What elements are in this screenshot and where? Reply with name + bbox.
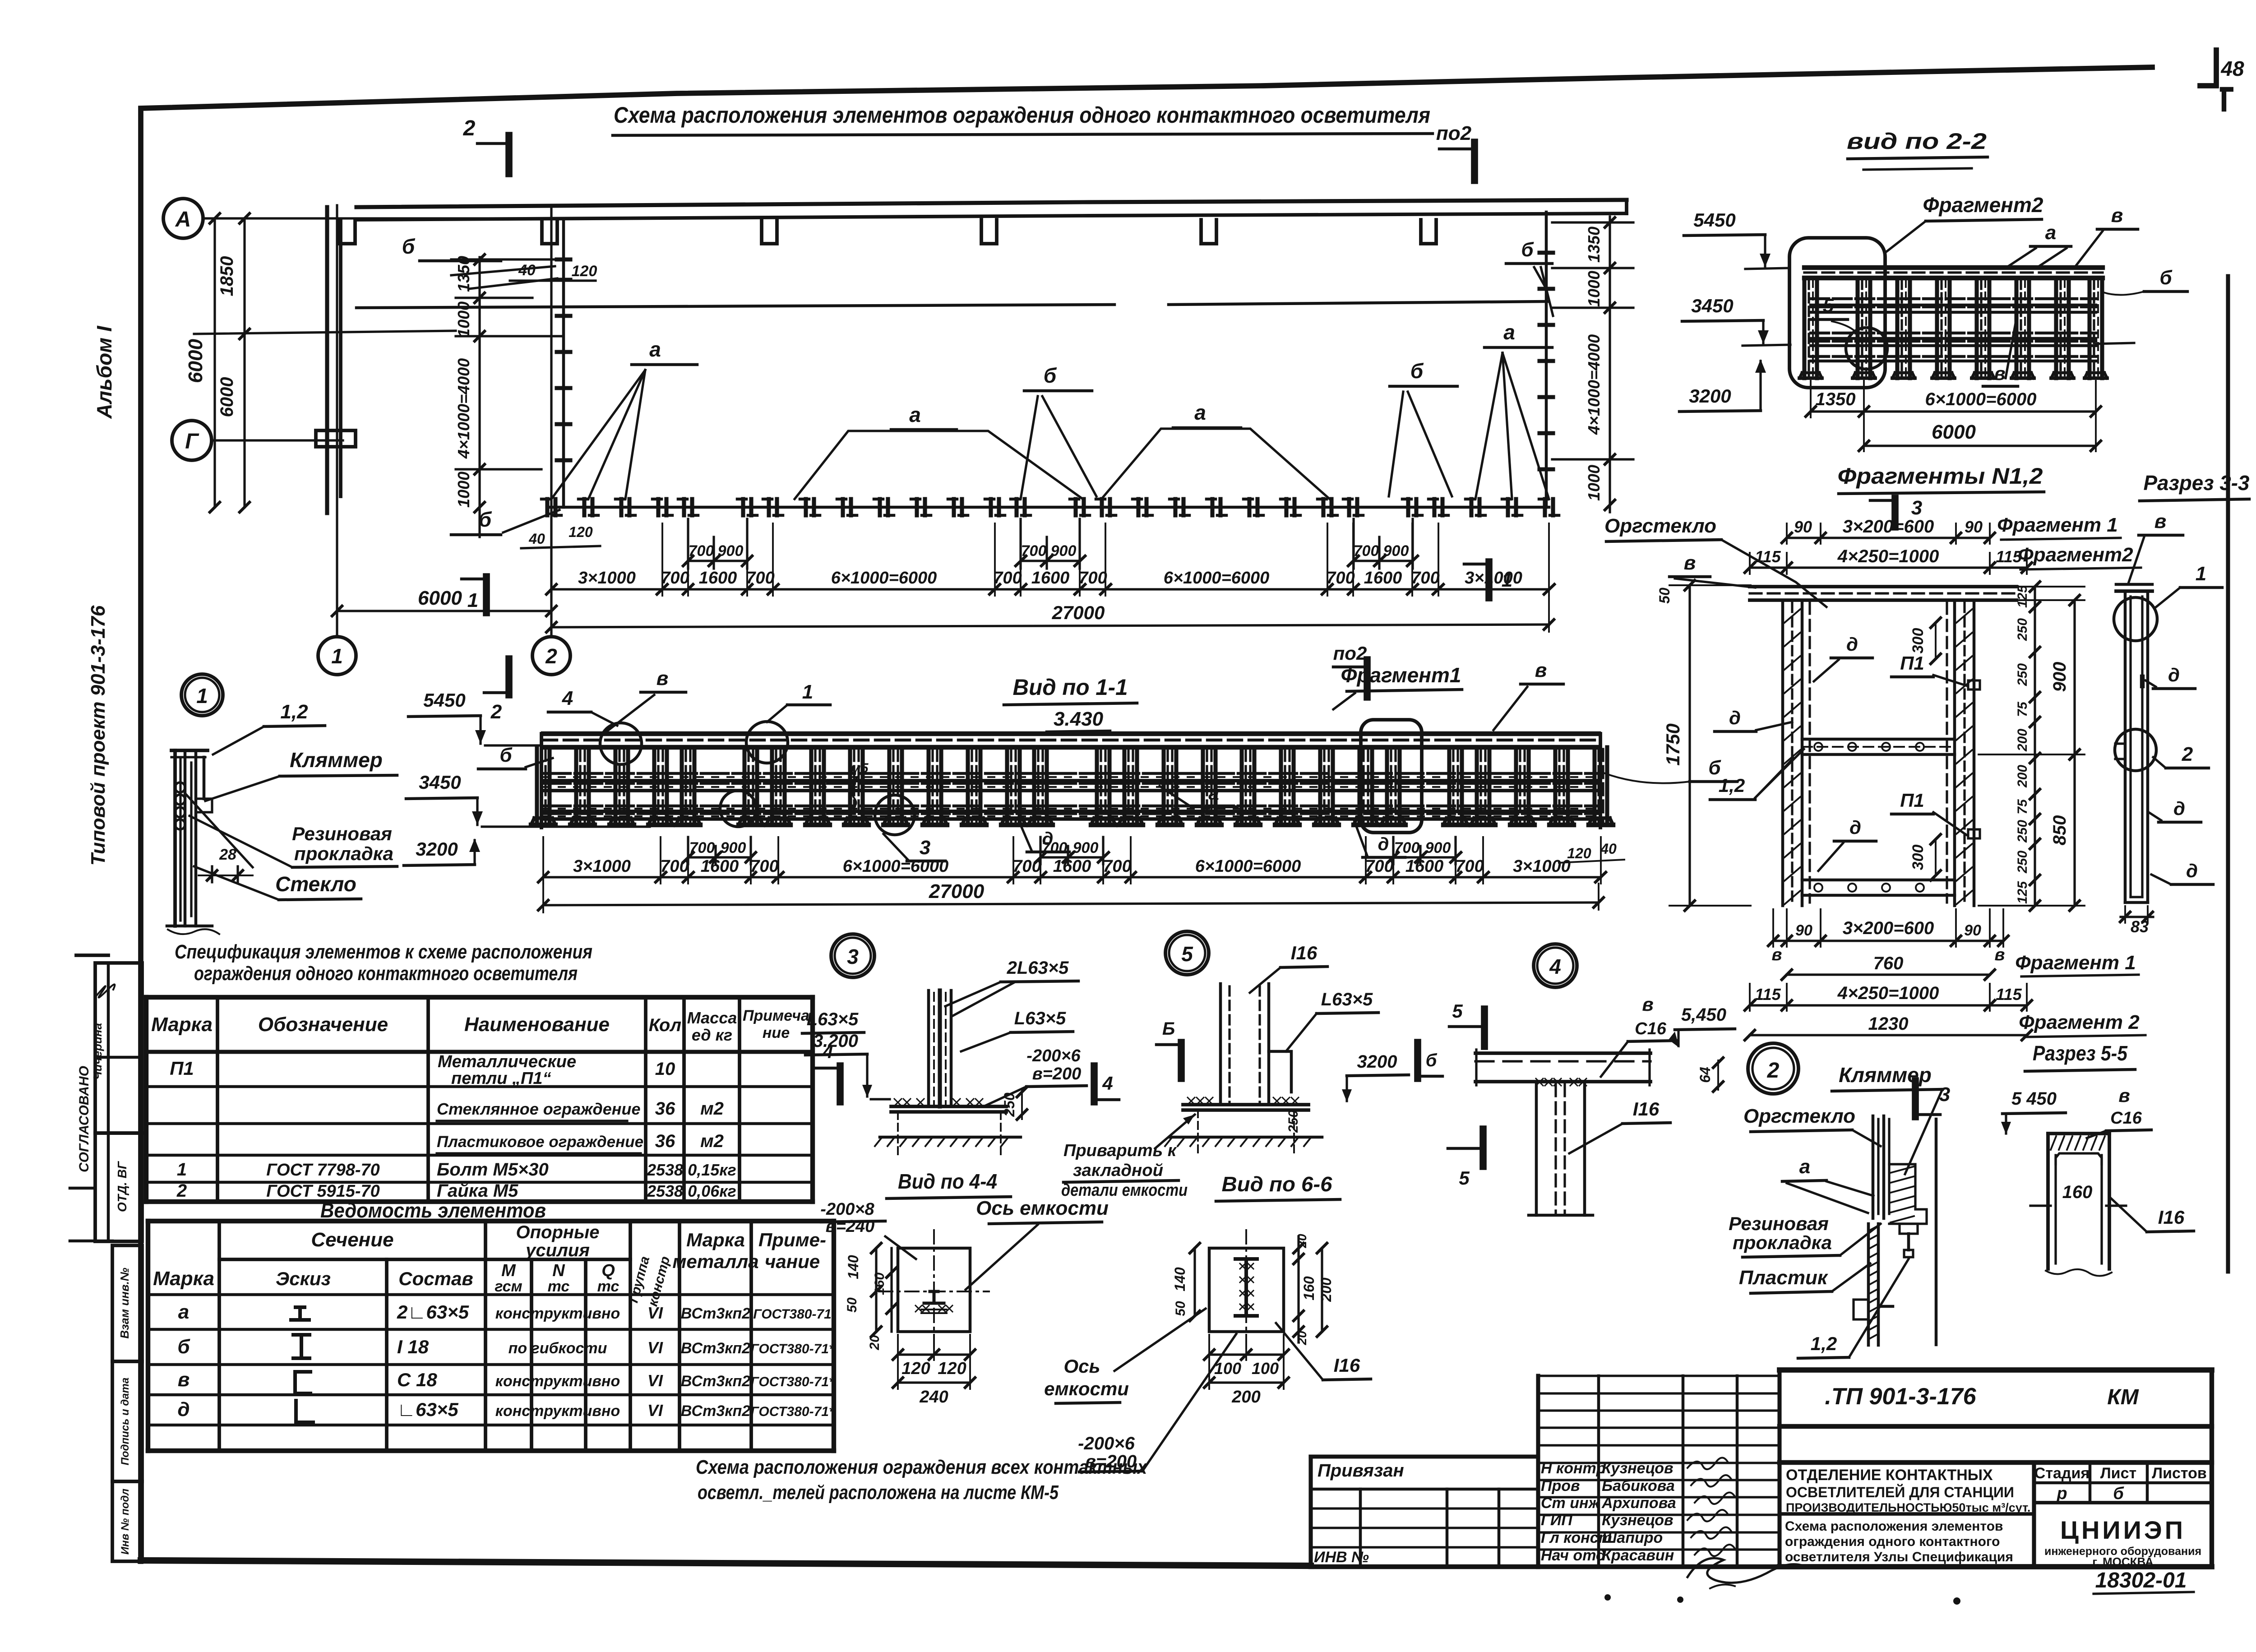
svg-text:в: в — [2118, 1085, 2130, 1106]
elevation post — [1279, 747, 1283, 825]
fragments frame: 1750 dim — [1688, 585, 1691, 906]
svg-text:ОСВЕТЛИТЕЛЕЙ ДЛЯ СТАНЦИИ: ОСВЕТЛИТЕЛЕЙ ДЛЯ СТАНЦИИ — [1786, 1484, 2014, 1500]
svg-text:4: 4 — [562, 687, 573, 709]
svg-text:д: д — [1729, 707, 1741, 728]
plan group dims row — [551, 588, 1549, 590]
elevation rail bands — [543, 772, 1599, 775]
view 2-2 post — [2054, 278, 2058, 378]
wall tab — [340, 220, 355, 244]
svg-text:40: 40 — [528, 531, 545, 547]
svg-text:2: 2 — [2182, 743, 2193, 765]
plan post — [656, 499, 660, 515]
axis A circle — [163, 199, 203, 238]
svg-text:Фрагмент 1: Фрагмент 1 — [1997, 514, 2118, 536]
svg-text:ВСт3кп2: ВСт3кп2 — [681, 1305, 750, 1322]
wall pilaster on axis Г — [316, 430, 356, 447]
elevation post — [1447, 747, 1451, 825]
svg-text:Чичерина: Чичерина — [91, 1023, 104, 1080]
svg-text:3450: 3450 — [419, 772, 461, 793]
svg-text:Примеча: Примеча — [743, 1007, 809, 1024]
svg-text:4×1000=4000: 4×1000=4000 — [1585, 334, 1603, 435]
title block: upper box ТП 901-3-176 / КМ — [1780, 1367, 2212, 1373]
svg-text:ПРОИЗВОДИТЕЛЬНОСТЬЮ50тыс м³/су: ПРОИЗВОДИТЕЛЬНОСТЬЮ50тыс м³/сут. — [1786, 1501, 2030, 1514]
svg-text:Спецификация элементов к схеме: Спецификация элементов к схеме расположе… — [175, 941, 592, 963]
fragments bottom dims — [1773, 939, 2003, 942]
plan post — [915, 499, 919, 515]
svg-text:в=200: в=200 — [1085, 1452, 1137, 1472]
svg-text:конструктивно: конструктивно — [495, 1305, 620, 1322]
svg-text:ГОСТ 5915-70: ГОСТ 5915-70 — [266, 1182, 380, 1201]
svg-text:700: 700 — [1103, 857, 1131, 876]
view 2-2 rails — [1811, 297, 2096, 301]
svg-text:36: 36 — [655, 1099, 675, 1119]
svg-text:-200×6: -200×6 — [1026, 1046, 1081, 1065]
fragments right dim ladder — [2034, 587, 2036, 906]
svg-text:3: 3 — [847, 945, 859, 968]
detail 3: post with angles — [927, 990, 930, 1106]
svg-text:Приме-: Приме- — [758, 1229, 826, 1250]
elevation post — [1514, 747, 1518, 825]
svg-text:в: в — [656, 667, 669, 689]
svg-text:Болт М5×30: Болт М5×30 — [437, 1160, 549, 1180]
svg-text:конструктивно: конструктивно — [495, 1373, 620, 1390]
svg-text:1: 1 — [177, 1160, 187, 1180]
svg-text:Фрагмент 2: Фрагмент 2 — [2019, 1011, 2140, 1033]
svg-text:3×1000: 3×1000 — [573, 857, 631, 876]
svg-text:Н контр: Н контр — [1541, 1460, 1606, 1477]
svg-text:700: 700 — [1078, 569, 1107, 588]
svg-text:115: 115 — [1755, 985, 1781, 1004]
svg-text:а: а — [649, 338, 661, 361]
plan post — [841, 499, 845, 515]
svg-text:Вид по 6-6: Вид по 6-6 — [1222, 1172, 1332, 1196]
detail 2: clamp angle hatched — [1889, 1164, 1927, 1224]
svg-text:б: б — [2159, 267, 2173, 289]
elevation post — [1553, 747, 1557, 825]
svg-text:83: 83 — [2131, 917, 2149, 936]
detail 2: bolt — [1900, 1224, 1918, 1234]
svg-text:0,15кг: 0,15кг — [688, 1161, 736, 1179]
plan post — [1136, 499, 1140, 515]
ink dots — [1604, 1594, 1611, 1601]
svg-text:5: 5 — [1459, 1167, 1470, 1189]
svg-text:Пластик: Пластик — [1739, 1267, 1829, 1289]
interior dim ladder (right side) — [1609, 217, 1611, 512]
plan post — [1506, 499, 1510, 515]
plan post — [619, 499, 623, 515]
svg-text:5,450: 5,450 — [1681, 1005, 1726, 1025]
svg-text:д: д — [1846, 634, 1858, 655]
svg-text:1: 1 — [196, 684, 208, 708]
svg-text:240: 240 — [919, 1388, 948, 1407]
section 3-3 bottom dim 83 — [2121, 916, 2153, 918]
svg-text:ОТДЕЛЕНИЕ КОНТАКТНЫХ: ОТДЕЛЕНИЕ КОНТАКТНЫХ — [1786, 1467, 1993, 1484]
plan post — [741, 499, 745, 515]
svg-text:А: А — [175, 208, 191, 231]
svg-text:700: 700 — [1326, 569, 1355, 588]
svg-text:Марка: Марка — [686, 1229, 745, 1250]
svg-text:Резиновая: Резиновая — [292, 823, 392, 844]
elevation post — [770, 747, 774, 825]
svg-text:Стеклянное ограждение: Стеклянное ограждение — [437, 1100, 641, 1118]
detail 2: bottom clip — [1854, 1300, 1868, 1319]
svg-text:Г: Г — [185, 430, 199, 453]
detail 5 cut marks б — [1178, 1042, 1185, 1078]
svg-text:усилия: усилия — [525, 1240, 590, 1260]
svg-text:1850: 1850 — [217, 256, 237, 296]
svg-text:20: 20 — [1295, 1234, 1309, 1249]
svg-text:700: 700 — [1354, 542, 1379, 560]
svg-text:г. МОСКВА: г. МОСКВА — [2092, 1555, 2154, 1569]
vedomost sketches — [291, 1307, 309, 1320]
detail 5: I16 post — [1219, 984, 1222, 1105]
svg-text:900: 900 — [1073, 839, 1099, 856]
svg-text:в: в — [1684, 552, 1696, 574]
svg-text:М: М — [501, 1261, 516, 1280]
svg-text:160: 160 — [872, 1273, 887, 1295]
svg-text:6000: 6000 — [217, 377, 237, 417]
svg-text:б: б — [2113, 1484, 2124, 1503]
detail circle 5 on view 2-2 — [1846, 328, 1887, 369]
svg-text:а: а — [1799, 1156, 1810, 1178]
view 2-2 post — [1895, 278, 1899, 378]
svg-text:200: 200 — [2015, 765, 2030, 788]
svg-text:вид по 2-2: вид по 2-2 — [1847, 129, 1987, 154]
svg-text:3×200=600: 3×200=600 — [1843, 918, 1934, 938]
svg-text:а: а — [2045, 222, 2056, 244]
svg-text:140: 140 — [845, 1255, 861, 1279]
svg-text:чание: чание — [765, 1251, 820, 1272]
plan post — [767, 499, 771, 515]
svg-text:ед кг: ед кг — [692, 1026, 732, 1044]
detail 2: lower plate hatched — [1867, 1224, 1870, 1345]
svg-text:1000: 1000 — [1585, 271, 1603, 307]
plan post — [952, 499, 956, 515]
svg-text:27000: 27000 — [1052, 602, 1105, 623]
detail 2 circle — [1748, 1043, 1798, 1094]
view 2-2 post — [2087, 278, 2091, 378]
svg-text:1600: 1600 — [699, 569, 737, 588]
svg-text:Ст инж: Ст инж — [1541, 1495, 1601, 1512]
view 2-2 post — [2014, 278, 2018, 378]
svg-text:18302-01: 18302-01 — [2095, 1569, 2187, 1592]
view 2-2 bottom dims — [1810, 381, 1812, 417]
svg-text:Наименование: Наименование — [464, 1013, 610, 1036]
detail 4 circle — [1534, 944, 1577, 987]
svg-text:1: 1 — [802, 681, 813, 703]
axis dim 6000 — [337, 610, 551, 612]
svg-text:б: б — [402, 235, 416, 258]
page number 48 — [2200, 50, 2216, 86]
svg-text:1: 1 — [467, 589, 478, 611]
svg-text:10: 10 — [655, 1059, 675, 1079]
detail 5: base plate — [1183, 1103, 1308, 1106]
svg-text:3200: 3200 — [1689, 385, 1731, 407]
svg-text:0,06кг: 0,06кг — [688, 1182, 736, 1200]
plan post — [1073, 499, 1077, 515]
elevation post — [848, 747, 852, 825]
svg-text:петли „П1“: петли „П1“ — [451, 1069, 551, 1088]
elevation post — [1161, 747, 1165, 825]
svg-text:900: 900 — [721, 839, 746, 856]
svg-text:250: 250 — [2015, 820, 2030, 843]
detail 1 circle — [181, 674, 223, 716]
svg-text:160: 160 — [2062, 1182, 2093, 1202]
plan post — [1210, 499, 1214, 515]
svg-text:в: в — [2154, 510, 2167, 532]
svg-text:L63×5: L63×5 — [807, 1009, 859, 1029]
svg-text:1000: 1000 — [1585, 465, 1603, 501]
svg-text:Стадия: Стадия — [2034, 1465, 2090, 1482]
svg-text:120: 120 — [901, 1359, 930, 1378]
svg-text:металла: металла — [672, 1251, 758, 1272]
svg-text:Инв № подл: Инв № подл — [119, 1489, 131, 1555]
cut mark 3 (bottom) — [1912, 1081, 1919, 1117]
svg-text:Металлические: Металлические — [438, 1052, 576, 1071]
П1 hooks on right column — [1968, 680, 1980, 689]
svg-text:б: б — [1410, 359, 1424, 383]
svg-text:3×200=600: 3×200=600 — [1843, 517, 1934, 537]
svg-text:С16: С16 — [2110, 1109, 2142, 1128]
svg-text:Оргстекло: Оргстекло — [1604, 515, 1716, 537]
svg-text:ГОСТ380-71*: ГОСТ380-71* — [750, 1342, 835, 1356]
elevation post — [1122, 747, 1126, 825]
svg-text:300: 300 — [1909, 628, 1927, 654]
svg-text:1,2: 1,2 — [1811, 1333, 1837, 1354]
svg-text:Пластиковое ограждение: Пластиковое ограждение — [437, 1133, 643, 1151]
svg-text:Пров: Пров — [1541, 1477, 1580, 1495]
svg-text:Q: Q — [601, 1261, 615, 1280]
svg-text:Эскиз: Эскиз — [276, 1268, 331, 1289]
svg-text:75: 75 — [2015, 799, 2030, 814]
wall tab — [981, 220, 997, 244]
svg-text:2538: 2538 — [647, 1161, 683, 1179]
svg-text:3: 3 — [920, 837, 930, 859]
svg-text:а: а — [178, 1301, 189, 1323]
fence end post (right) — [1545, 212, 1548, 507]
svg-text:осветл._телей расположена на л: осветл._телей расположена на листе КМ-5 — [698, 1481, 1059, 1504]
svg-text:3450: 3450 — [1691, 295, 1733, 316]
svg-text:760: 760 — [1873, 953, 1904, 973]
svg-text:I16: I16 — [1633, 1098, 1660, 1120]
svg-text:N: N — [552, 1261, 565, 1280]
big flourish signature — [1687, 1558, 1803, 1583]
elevation post — [926, 747, 930, 825]
svg-text:д: д — [177, 1398, 190, 1421]
svg-text:20: 20 — [1295, 1331, 1309, 1346]
svg-text:6×1000=6000: 6×1000=6000 — [1195, 857, 1301, 876]
svg-text:VI: VI — [647, 1401, 663, 1420]
svg-text:VI: VI — [647, 1371, 663, 1390]
plan post — [1543, 499, 1547, 515]
svg-text:Фрагмент2: Фрагмент2 — [1923, 193, 2043, 217]
svg-text:Схема расположения элементов: Схема расположения элементов ограждения … — [614, 102, 1430, 128]
svg-text:900: 900 — [1425, 839, 1451, 856]
svg-text:700: 700 — [1021, 542, 1047, 560]
svg-text:5450: 5450 — [423, 689, 465, 711]
svg-text:Фрагмент 1: Фрагмент 1 — [2015, 952, 2136, 974]
detail 5: angle at base — [1269, 1051, 1291, 1092]
view 6-6 dims — [1193, 1248, 1196, 1316]
svg-text:в: в — [1535, 659, 1547, 681]
elevation post — [1201, 747, 1205, 825]
svg-text:VI: VI — [647, 1304, 663, 1322]
svg-text:700: 700 — [746, 569, 774, 588]
svg-text:Состав: Состав — [398, 1268, 473, 1289]
section cut 2 (plan bottom left) — [505, 659, 513, 695]
svg-text:1000: 1000 — [454, 301, 473, 338]
svg-text:1600: 1600 — [701, 857, 739, 876]
svg-text:Марка: Марка — [153, 1268, 214, 1290]
svg-text:д: д — [1378, 834, 1389, 854]
plan fence line — [550, 506, 1549, 509]
svg-text:Масса: Масса — [687, 1009, 737, 1027]
svg-text:50: 50 — [845, 1297, 860, 1313]
view 2-2 post — [1935, 278, 1939, 378]
svg-text:Резиновая: Резиновая — [1729, 1213, 1829, 1234]
svg-text:д: д — [1849, 817, 1861, 838]
svg-text:в: в — [2111, 204, 2123, 227]
axis 2 circle — [532, 637, 570, 675]
svg-text:20: 20 — [867, 1335, 882, 1351]
svg-text:П1: П1 — [1900, 790, 1924, 811]
plan post — [1247, 499, 1251, 515]
svg-text:2538: 2538 — [647, 1182, 683, 1200]
svg-text:ГОСТ380-71*: ГОСТ380-71* — [750, 1374, 835, 1389]
svg-text:Обозначение: Обозначение — [258, 1013, 388, 1036]
section 5-5 channel box — [2048, 1132, 2109, 1135]
elevation post — [1357, 747, 1361, 825]
plan post — [1014, 499, 1018, 515]
svg-text:700: 700 — [1455, 857, 1484, 876]
svg-text:ВСт3кп2: ВСт3кп2 — [681, 1373, 750, 1390]
svg-text:160: 160 — [1301, 1276, 1317, 1300]
left vertical dimension chain 1850/6000 — [213, 218, 216, 507]
axis Г circle — [172, 421, 212, 460]
wall tab — [542, 220, 557, 244]
svg-text:3.430: 3.430 — [1054, 708, 1104, 730]
section 3-3 channel post — [2116, 589, 2152, 593]
plan post — [1284, 499, 1288, 515]
plan post — [545, 499, 549, 515]
svg-text:6000: 6000 — [418, 587, 462, 609]
svg-text:2L63×5: 2L63×5 — [1007, 958, 1069, 978]
svg-text:3×1000: 3×1000 — [578, 569, 636, 588]
svg-text:б: б — [1521, 239, 1534, 261]
svg-text:125: 125 — [2015, 585, 2030, 608]
svg-text:Вид по 4-4: Вид по 4-4 — [898, 1170, 997, 1193]
svg-text:3: 3 — [1911, 497, 1922, 519]
view 2-2 post — [1974, 278, 1979, 378]
svg-text:П1: П1 — [1900, 652, 1924, 674]
svg-text:Ведомость элементов: Ведомость элементов — [320, 1199, 546, 1222]
svg-text:Фрагмент1: Фрагмент1 — [1341, 663, 1461, 687]
svg-text:ГОСТ380-71: ГОСТ380-71 — [753, 1307, 832, 1322]
svg-text:а: а — [1194, 401, 1206, 424]
svg-text:в=200: в=200 — [1032, 1064, 1082, 1083]
svg-text:П1: П1 — [170, 1058, 194, 1079]
svg-text:4: 4 — [1102, 1073, 1113, 1094]
detail 1: glass clamp section — [173, 750, 177, 926]
svg-text:64: 64 — [1697, 1067, 1713, 1083]
stadia list listov — [2034, 1481, 2212, 1485]
elevation post — [1005, 747, 1009, 825]
svg-text:м2: м2 — [700, 1131, 724, 1151]
svg-text:1750: 1750 — [1662, 723, 1683, 765]
svg-text:тс: тс — [597, 1278, 619, 1295]
svg-text:1600: 1600 — [1364, 569, 1402, 588]
svg-text:Кол: Кол — [649, 1015, 682, 1035]
svg-text:28: 28 — [219, 846, 236, 863]
view 2-2 post — [1855, 278, 1859, 378]
svg-text:в: в — [1994, 363, 2005, 384]
svg-text:1: 1 — [331, 644, 343, 668]
svg-text:.ТП 901-3-176: .ТП 901-3-176 — [1825, 1384, 1976, 1410]
svg-text:5 450: 5 450 — [2011, 1089, 2057, 1109]
svg-text:700: 700 — [660, 857, 689, 876]
svg-text:Вид по 1-1: Вид по 1-1 — [1013, 675, 1128, 700]
elevation post — [1318, 747, 1322, 825]
svg-text:Фрагменты N1,2: Фрагменты N1,2 — [1838, 463, 2043, 489]
svg-text:I16: I16 — [2158, 1207, 2185, 1228]
view 2-2 fragment2 outline — [1789, 238, 1885, 388]
svg-text:1600: 1600 — [1031, 569, 1070, 588]
svg-text:I16: I16 — [1334, 1355, 1360, 1376]
svg-text:1: 1 — [2196, 563, 2206, 585]
svg-text:∟63×5: ∟63×5 — [397, 1399, 458, 1420]
svg-text:Кляммер: Кляммер — [1839, 1063, 1932, 1087]
svg-text:Шапиро: Шапиро — [1602, 1529, 1663, 1546]
svg-text:L63×5: L63×5 — [1321, 990, 1373, 1009]
svg-text:Привязан: Привязан — [1318, 1461, 1404, 1481]
svg-text:6×1000=6000: 6×1000=6000 — [843, 857, 949, 876]
fragments frame: top rail — [1750, 585, 2016, 588]
svg-text:-200×8: -200×8 — [820, 1200, 874, 1219]
svg-text:2: 2 — [490, 701, 502, 723]
svg-text:в: в — [1642, 994, 1653, 1015]
plan post — [1432, 499, 1436, 515]
detail 5 circle — [1165, 931, 1209, 975]
svg-text:ВСт3кп2: ВСт3кп2 — [681, 1340, 750, 1357]
svg-text:5: 5 — [1452, 1000, 1463, 1022]
svg-text:емкости: емкости — [1044, 1378, 1129, 1399]
svg-text:I16: I16 — [1291, 942, 1318, 963]
svg-text:700: 700 — [1411, 569, 1439, 588]
elevation top rail — [543, 731, 1599, 736]
svg-text:120: 120 — [1567, 845, 1591, 861]
svg-text:д: д — [2186, 860, 2198, 881]
svg-text:3×1000: 3×1000 — [1465, 569, 1522, 588]
svg-text:50: 50 — [1173, 1301, 1188, 1316]
interior dim ladder (left of axis 2) — [478, 257, 481, 537]
svg-text:по2: по2 — [1333, 643, 1367, 664]
svg-text:Схема расположения ограждения: Схема расположения ограждения всех конта… — [696, 1456, 1147, 1478]
svg-text:700: 700 — [1042, 839, 1068, 856]
svg-text:250: 250 — [2015, 851, 2030, 874]
elevation detail circles — [600, 723, 642, 764]
view 6-6 plan — [1209, 1248, 1284, 1332]
wall tab — [1421, 220, 1436, 244]
elevation group dims — [543, 876, 1601, 878]
section cut 1 (plan right) — [1485, 562, 1493, 598]
svg-text:ГИП: ГИП — [1541, 1512, 1573, 1529]
view 2-2 post — [1802, 278, 1806, 378]
svg-text:115: 115 — [1755, 547, 1781, 566]
svg-text:2∟63×5: 2∟63×5 — [397, 1301, 469, 1323]
svg-text:700: 700 — [1012, 857, 1041, 876]
svg-text:250: 250 — [2015, 663, 2030, 686]
svg-text:б: б — [177, 1336, 190, 1358]
